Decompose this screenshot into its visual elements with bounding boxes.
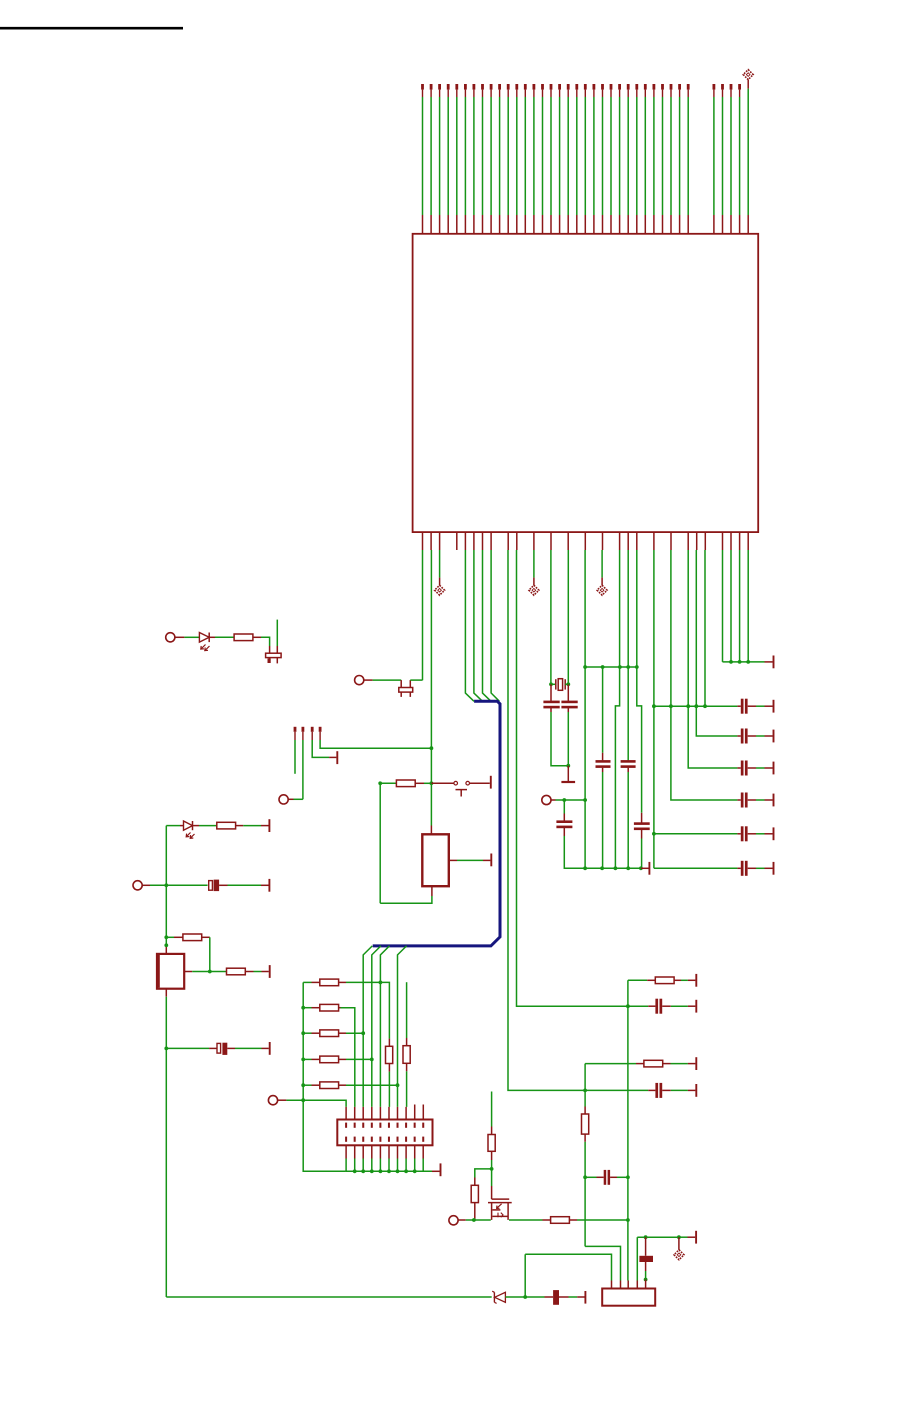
IC U1 bottom pin stub col 21 [602, 532, 604, 550]
capacitor C2 decoupling [741, 729, 748, 744]
junction OSC1/R3 node [208, 970, 212, 974]
supply terminal bar C-P1 row [268, 879, 270, 892]
junction bottom rail x525 [523, 1295, 527, 1299]
lead bank row 1 left [303, 981, 320, 983]
IC U1 top pin 24 with net stub [618, 84, 621, 234]
lead C3 right to terminal [748, 767, 773, 769]
wire cap C down leads [602, 768, 604, 869]
connector SV1 top pin 3 lead [362, 1107, 364, 1120]
wire pin1 long vertical [430, 550, 432, 834]
lead bank row 3 left [303, 1032, 320, 1034]
supply terminal bar top-right [773, 656, 775, 669]
connector SV1 top pin 2 lead [354, 1107, 356, 1120]
wire bank row5 right [339, 1084, 398, 1086]
junction pin1/switch row [430, 781, 434, 785]
junction y1237 at diamond branch [677, 1235, 681, 1239]
IC U1 top pin 35 with net stub [713, 84, 716, 234]
lead bank row 4 left [303, 1058, 320, 1060]
wire cap row1 left [654, 705, 741, 707]
IC U1 top pin 19 with net stub [575, 84, 578, 234]
junction crystal left [549, 682, 553, 686]
LED D2 [184, 821, 195, 838]
resistor R15 [320, 1082, 339, 1089]
IC U1 top pin 31 with net stub [678, 84, 681, 234]
IC U1 bottom pin stub col 37 [739, 532, 741, 550]
jumper SJ1 [266, 646, 282, 663]
supply terminal bar row 4 [773, 794, 775, 807]
connector SV1 bottom pin 6 lead [388, 1145, 390, 1171]
lead bank row 5 left [303, 1084, 320, 1086]
wire cap row5 left [654, 833, 741, 835]
resistor R41 vertical [488, 1135, 495, 1152]
lead C5 right to terminal [748, 833, 773, 835]
wire SJ1 right leg up free end [276, 620, 278, 646]
IC U1 bottom pin stub col 29 [670, 532, 672, 550]
net port diamond bottom [674, 1237, 684, 1260]
IC U1 bottom pin stub col 17 [567, 532, 569, 550]
capacitor C-D [621, 760, 636, 768]
transistor Q1 MOSFET [488, 1199, 512, 1220]
wire R4 to terminal [245, 971, 268, 973]
IC U1 top pin 12 with net stub [515, 84, 518, 234]
component OSC1 box [157, 954, 184, 989]
supply terminal bar C-P2 row [269, 1042, 271, 1055]
bus B1 [373, 701, 500, 946]
capacitor C5 decoupling [741, 826, 748, 841]
wire C-B bottom to gnd node [567, 708, 569, 766]
IC U1 top pin 37 with net stub [730, 84, 733, 234]
capacitor C-E [556, 820, 572, 828]
wire pin11 down to row B [517, 550, 649, 1006]
capacitor C-P1 polarized [209, 880, 228, 892]
wire R43 to x627.9 [569, 1219, 628, 1221]
wire diode D3 to rail [505, 1296, 553, 1298]
IC U1 bottom pin stub col 24 [627, 532, 629, 550]
IC U1 top pin 9 with net stub [490, 84, 493, 234]
IC U1 bottom pin stub col 27 [653, 532, 655, 550]
wire R5 to switch S1 [415, 782, 454, 784]
wire cap E bottom to gnd rail [564, 828, 641, 868]
lead cap row3 [737, 767, 740, 769]
wire C-A bottom to gnd node [551, 708, 568, 766]
IC U1 bottom pin stub col 1 [430, 532, 432, 550]
junction below C-T [644, 1278, 648, 1282]
wire R31 right to terminal [674, 979, 695, 981]
wire pin23 down with jog [615, 550, 619, 868]
wire bank row1 right [339, 982, 390, 1046]
junction y1237 at cap branch [644, 1235, 648, 1239]
wire row C [585, 1063, 644, 1065]
IC U1 top pin 20 with net stub [584, 84, 587, 234]
IC U1 top pin 4 with net stub [447, 84, 450, 234]
IC U1 bottom pin stub col 33 [704, 532, 706, 550]
wire row y1237 top [637, 1236, 695, 1238]
wire pin7 to bus entry [483, 550, 492, 701]
junction x627.9 mosfet row [626, 1218, 630, 1222]
capacitor C-P2 polarized with leads [166, 1043, 268, 1055]
junction row783 at x380 [378, 781, 382, 785]
wire LED D2 to R2 [193, 825, 217, 827]
IC U1 top pin 7 with net stub [473, 84, 476, 234]
IC U1 bottom pin stub col 25 [636, 532, 638, 550]
IC U1 bottom pin stub col 15 [550, 532, 552, 550]
capacitor C4 decoupling [741, 793, 748, 808]
net port diamond on IC U1 top pin 39 [743, 70, 753, 234]
wire OSC1 right to R4 [184, 971, 226, 973]
IC U1 top pin 28 with net stub [653, 84, 656, 234]
capacitor C-C [596, 760, 611, 768]
lead crystal right to C-B [567, 684, 569, 701]
junction bank row5 [396, 1083, 400, 1087]
IC U1 top pin 15 with net stub [541, 84, 544, 234]
wire R22 top free end [406, 982, 408, 1045]
IC U1 top pin 18 with net stub [567, 84, 570, 234]
junction dots top-right merge [729, 660, 750, 664]
supply terminal bar row 6 [773, 862, 775, 875]
resistor R2 [217, 822, 236, 829]
wire pin32 down to cap row2 [696, 550, 737, 736]
wire top-right merge horizontal [723, 661, 773, 663]
IC U1 bottom pin stub col 13 [533, 532, 535, 550]
capacitor C6 decoupling [741, 861, 748, 876]
capacitor C-A [543, 701, 559, 709]
wire pad J6 row to connector pin1 [303, 1100, 346, 1107]
IC U1 bottom pin stub col 19 [584, 532, 586, 550]
supply terminal bar row 3 [773, 762, 775, 775]
IC U1 body [413, 234, 759, 532]
IC U1 top pin 26 with net stub [635, 84, 638, 234]
resistor R22 vertical [403, 1046, 410, 1064]
junction dots SV1 ground rail [353, 1169, 417, 1173]
IC U1 bottom pin stub col 5 [464, 532, 466, 550]
IC U1 top pin 22 with net stub [601, 84, 604, 234]
IC U1 top pin 27 with net stub [644, 84, 647, 234]
junction bank row3 [361, 1031, 365, 1035]
IC U1 bottom pin stub col 38 [747, 532, 749, 550]
junction dots left rail at R3/box [164, 935, 168, 947]
capacitor C-M with leads [585, 1170, 628, 1185]
IC U1 top pin 30 with net stub [670, 84, 673, 234]
wire R22 bottom to connector [406, 1063, 408, 1107]
resistor R31 [655, 977, 674, 984]
wire SP1 right to terminal [449, 859, 491, 861]
capacitor C3 decoupling [741, 761, 748, 776]
wire pad J6 to rail [278, 1099, 304, 1101]
IC U1 top pin 16 with net stub [550, 84, 553, 234]
wire branch x602.6 down to cap C [602, 667, 604, 760]
connector SV1 bottom pin 2 lead [354, 1145, 356, 1171]
net port diamond below pin21 [597, 585, 607, 595]
supply terminal bar row B [695, 1000, 697, 1013]
junction gate node [472, 1218, 476, 1222]
wire C-RD right to terminal [662, 1089, 695, 1091]
connector SV1 top pin 8 lead [405, 1107, 407, 1120]
connector SV1 top pin 1 lead [345, 1107, 347, 1120]
wire cap row6 left [654, 867, 741, 869]
resistor R12 [320, 1004, 339, 1011]
IC U1 top pin 1 with net stub [421, 84, 424, 234]
wire bank row2 right [339, 1008, 355, 1107]
connector SV1 bottom pin 1 lead [345, 1145, 347, 1171]
wire pin0 to jumper SJ2 [422, 550, 424, 680]
wire pad J2 to SJ2 [364, 679, 401, 681]
IC U1 top pin 10 with net stub [498, 84, 501, 234]
wire x585 down from row C [584, 1064, 586, 1114]
resistor R11 [320, 979, 339, 986]
switch S1 [454, 781, 490, 796]
wire pad J1 to LED D1 [175, 636, 200, 638]
wire R1 to jumper SJ1 [253, 637, 270, 646]
connector SV1 bottom pin 9 lead [414, 1145, 416, 1171]
supply terminal bar switch row [490, 776, 492, 789]
wire pin13 to diamond [533, 550, 535, 585]
supply terminal bar row C [695, 1057, 697, 1070]
IC U1 top pin 32 with net stub [687, 84, 690, 234]
capacitor C-RB [655, 999, 662, 1014]
connector SV1 bottom pin 7 lead [397, 1145, 399, 1171]
supply terminal bar row 1 [773, 700, 775, 713]
wire pin31 down to cap row3 [688, 550, 737, 768]
junction bank row1 x380 [379, 981, 383, 985]
supply terminal bar SP1 [490, 854, 492, 867]
junction bank row4 [370, 1058, 374, 1062]
IC U1 bottom pin stub col 8 [490, 532, 492, 550]
LED D1 [199, 633, 209, 651]
junction x627.9 rowB [626, 1004, 630, 1008]
wire bottom rail left [166, 1296, 491, 1298]
connector X1 pin leads [612, 1281, 638, 1289]
diode D3 zener [492, 1291, 505, 1303]
lead C-T to X1 [645, 1280, 647, 1289]
resistor R4 [227, 968, 246, 975]
IC U1 top pin 5 with net stub [455, 84, 458, 234]
connector SV1 top pin 4 lead [371, 1107, 373, 1120]
IC U1 top pin 13 with net stub [524, 84, 527, 234]
wire power rail y667 [585, 666, 637, 668]
wire x564.3 down to cap E [563, 800, 565, 821]
resistor R3 with leads [166, 936, 183, 938]
supply terminal bar R2 row [268, 819, 270, 832]
wire SJ2 to pin0 line [410, 679, 422, 681]
wire pin2 to diamond [439, 550, 441, 585]
IC U1 top pin 2 with net stub [430, 84, 433, 234]
wire pin27 down [653, 550, 655, 868]
capacitor C-F [634, 822, 650, 830]
connector SV1 top pin 5 lead [379, 1107, 381, 1120]
ground terminal bar y868 [641, 862, 650, 875]
wire x585 corner to connector X1 pin2 [585, 1246, 620, 1280]
connector X1 body [602, 1289, 655, 1306]
wire cap D down lead [627, 768, 629, 869]
connector pad J5 [542, 795, 551, 804]
wire pad J7 to gate [458, 1219, 491, 1221]
net port diamond below pin2 [435, 585, 445, 595]
capacitor C-T tantalum [639, 1237, 653, 1279]
supply terminal bar y1237 [695, 1231, 697, 1244]
IC U1 bottom pin stub col 11 [516, 532, 518, 550]
lead cap row4 [737, 799, 740, 801]
IC U1 bottom pin stub col 4 [456, 532, 458, 550]
connector pad J1 [166, 633, 175, 642]
resistor R3 [183, 934, 202, 941]
connector pad J6 [268, 1096, 277, 1105]
lead C6 right to terminal [748, 867, 773, 869]
bus exit wire 2 [372, 946, 381, 1107]
IC U1 bottom pin stub col 35 [722, 532, 724, 550]
IC U1 top pin 8 with net stub [481, 84, 484, 234]
connector pad J3 [279, 795, 288, 804]
IC U1 top pin 3 with net stub [438, 84, 441, 234]
IC U1 top pin 17 with net stub [558, 84, 561, 234]
ground terminal bar bottom [584, 1291, 586, 1304]
connector SV1 body [337, 1120, 432, 1146]
resistor R42 vertical [471, 1185, 478, 1202]
wire pad J3 to stub N2 [288, 798, 303, 800]
connector SV1 bottom pin 10 lead [422, 1145, 424, 1171]
IC U1 top pin 21 with net stub [593, 84, 596, 234]
wire SP1 bottom loop [380, 783, 432, 903]
supply terminal bar row D [695, 1084, 697, 1097]
ground symbol below crystal caps [561, 766, 575, 782]
wire bank row3 right [339, 1032, 364, 1034]
wire pin29 down to cap row4 [671, 550, 738, 800]
supply terminal bar row 2 [773, 730, 775, 743]
lead C-RD left [648, 1089, 655, 1091]
wire SV1 ground rail [346, 1170, 440, 1172]
IC U1 bottom pin stub col 0 [422, 532, 424, 550]
wire LED D1 to R1 [209, 636, 234, 638]
lead C1 right to terminal [748, 705, 773, 707]
IC U1 top pin 38 with net stub [738, 84, 741, 234]
lead bank row 2 left [303, 1007, 320, 1009]
wire x525 down [524, 1254, 526, 1297]
wire source row right [509, 1219, 551, 1221]
ground terminal bar stub N3 [336, 751, 338, 764]
supply terminal bar row A [695, 974, 697, 987]
wire pin6 to bus entry [474, 550, 483, 701]
junction dots cap row1 [652, 704, 707, 708]
IC U1 top pin 6 with net stub [464, 84, 467, 234]
junction node below R41 [490, 1167, 494, 1171]
IC U1 top pin 29 with net stub [661, 84, 664, 234]
junction dots bank left rail [301, 1006, 305, 1102]
IC U1 top pin 25 with net stub [627, 84, 630, 234]
wire pin15 to crystal [550, 550, 552, 684]
wire C-RB right to terminal [662, 1005, 695, 1007]
junction dots power rail y667 [583, 665, 639, 669]
resistor R5 [396, 780, 415, 787]
wire pin10 down to row D [508, 550, 648, 1090]
connector pad J3b wire row783 left [380, 782, 396, 784]
wires pins 36-39 merge to terminal [723, 550, 749, 662]
lead cap F bottom [641, 830, 643, 869]
IC U1 bottom pin stub col 36 [730, 532, 732, 550]
wire bank row4 right [339, 1058, 372, 1060]
connector pad J7 [449, 1216, 458, 1225]
bus exit wire 3 [380, 946, 389, 1107]
junction row D at x585 [583, 1089, 587, 1093]
IC U1 bottom pin stub col 31 [687, 532, 689, 550]
wire pin33 down [704, 550, 706, 706]
junction crystal gnd node [566, 764, 570, 768]
lead C4 right to terminal [748, 799, 773, 801]
bus exit wire 1 [363, 946, 372, 1107]
net port diamond below pin13 [529, 585, 539, 595]
lead C2 right to terminal [748, 735, 773, 737]
wire pin17 to crystal [567, 550, 569, 684]
wire pad J5 row [551, 799, 585, 801]
wire y1254 to X1 pin1 [525, 1254, 611, 1280]
lead C-RB left [648, 1005, 655, 1007]
IC U1 top pin 14 with net stub [533, 84, 536, 234]
resistor R1 [234, 634, 253, 641]
lead crystal left to C-A [550, 684, 552, 701]
connector pad J2 [355, 676, 364, 685]
wire R3 right down to R4 row [202, 937, 210, 971]
IC U1 bottom pin stub col 6 [473, 532, 475, 550]
capacitor C-B [561, 701, 577, 709]
IC U1 bottom pin stub col 2 [439, 532, 441, 550]
wire OSC1 bottom down rail [165, 989, 167, 1297]
resistor R21 vertical [386, 1046, 393, 1063]
wire pin8 to bus entry [491, 550, 499, 701]
wire corner to LED D2 [166, 825, 183, 827]
wire pad J4 to C-P1 [142, 884, 207, 886]
ground terminal bar SV1 [440, 1163, 442, 1176]
wire R41 bottom to node [491, 1151, 493, 1169]
wire x637.3 down to X1 [636, 1237, 638, 1280]
resistor R13 [320, 1030, 339, 1037]
junction pad J4 rail [164, 883, 168, 887]
wire pin21 to diamond [601, 550, 603, 585]
IC U1 top pin 36 with net stub [721, 84, 724, 234]
junction left rail cap branch [164, 1047, 168, 1051]
resistor R14 [320, 1056, 339, 1063]
wire node down to MOSFET drain [491, 1169, 493, 1199]
junction crystal right [566, 682, 570, 686]
wire C-P1 to terminal [228, 884, 269, 886]
IC U1 bottom pin stub col 23 [619, 532, 621, 550]
connector SV1 bottom pin 4 lead [371, 1145, 373, 1171]
wire pad J6 row down to gnd rail [303, 1100, 346, 1171]
connector SV1 top pin 10 stub [422, 1105, 424, 1120]
junction cap row x585 [583, 1175, 587, 1179]
jumper SJ2 [399, 680, 413, 697]
wire free end down to R41 [491, 1092, 493, 1135]
bus exit wire 4 [398, 946, 407, 1107]
connector SV1 bottom pin 8 lead [405, 1145, 407, 1171]
IC U1 bottom pin stub col 32 [696, 532, 698, 550]
capacitor C1 decoupling [741, 699, 748, 714]
IC U1 top pin 23 with net stub [610, 84, 613, 234]
wire pin19 long vertical [584, 550, 586, 868]
wire R33 bottom [584, 1134, 586, 1246]
junction cap row x628 [626, 1175, 630, 1179]
net stub N4 to pin1 line [319, 727, 432, 748]
wire R21 bottom to connector [388, 1064, 390, 1107]
component SP1 box [422, 834, 449, 886]
net stub N3 to ground [311, 727, 337, 758]
wire pin5 to bus entry [465, 550, 474, 701]
wire left rail x166 [165, 826, 167, 954]
wire resistor bank left rail [302, 982, 304, 1100]
lead cap row2 [737, 735, 740, 737]
wire row A from x627.9 [628, 979, 655, 981]
junction dots gnd rail y868 [583, 866, 643, 870]
supply terminal bar R4 row [269, 965, 271, 978]
IC U1 bottom pin stub col 10 [507, 532, 509, 550]
connector SV1 top pin 7 lead [397, 1107, 399, 1120]
